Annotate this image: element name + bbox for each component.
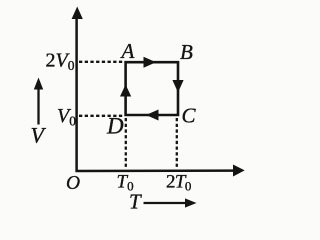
- arrow A to B (right): [144, 57, 157, 68]
- arrow B to C (down): [172, 80, 183, 93]
- x-axis (T axis): [76, 165, 245, 177]
- svg-text:T: T: [129, 190, 142, 214]
- T axis label arrow: [144, 198, 197, 207]
- dashed line from D down to T0: [125, 118, 127, 169]
- svg-text:A: A: [120, 39, 135, 63]
- cycle rectangle ABCD: [126, 62, 178, 115]
- arrow D to A (up): [120, 85, 131, 97]
- y-axis (V axis): [72, 7, 83, 172]
- svg-text:C: C: [182, 104, 197, 128]
- svg-text:D: D: [106, 114, 124, 139]
- V axis label arrow: [34, 78, 43, 125]
- dashed line from 2V0 to A: [79, 61, 124, 63]
- dashed line from C down to 2T0: [176, 118, 178, 169]
- svg-text:B: B: [180, 40, 193, 64]
- dashed line from V0 to D: [79, 115, 124, 117]
- svg-text:O: O: [66, 173, 80, 194]
- arrow C to D (left): [146, 110, 159, 121]
